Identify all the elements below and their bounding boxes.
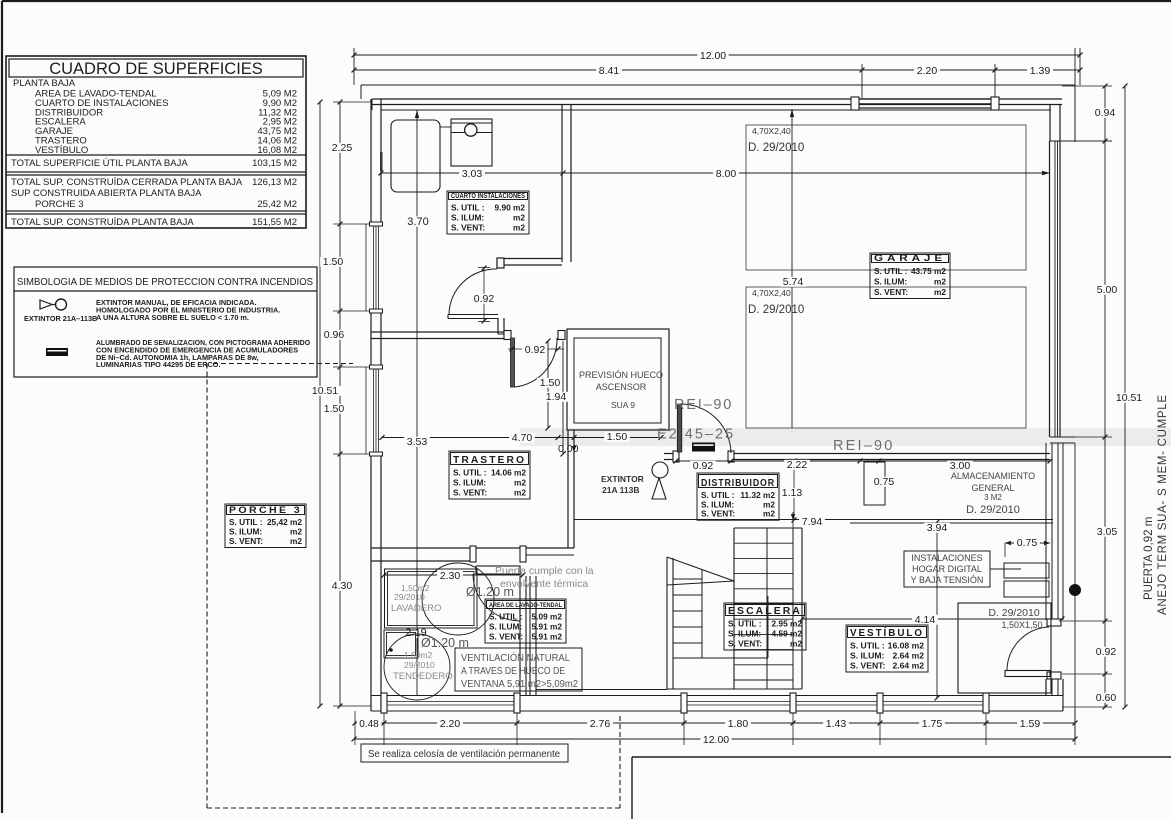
svg-text:1.13: 1.13: [782, 487, 803, 499]
svg-text:0.92: 0.92: [693, 460, 714, 472]
svg-text:S. VENT:: S. VENT:: [701, 509, 735, 519]
svg-text:TOTAL SUPERFICIE ÚTIL PLANTA B: TOTAL SUPERFICIE ÚTIL PLANTA BAJA: [11, 158, 188, 169]
svg-text:16.08 m2: 16.08 m2: [888, 641, 925, 651]
svg-text:S. VENT:: S. VENT:: [229, 536, 263, 546]
svg-text:25,42 m2: 25,42 m2: [267, 517, 302, 527]
svg-text:Se realiza celosía de ventilac: Se realiza celosía de ventilación perman…: [368, 749, 560, 760]
svg-text:14.06 m2: 14.06 m2: [491, 468, 526, 478]
svg-text:16,08 M2: 16,08 M2: [257, 145, 297, 156]
svg-text:D. 29/2010: D. 29/2010: [966, 504, 1020, 516]
svg-text:1.50: 1.50: [324, 403, 345, 415]
svg-text:2.20: 2.20: [440, 718, 461, 730]
svg-text:TOTAL SUP. CONSTRUÍDA CERRADA: TOTAL SUP. CONSTRUÍDA CERRADA PLANTA BAJ…: [11, 177, 243, 188]
svg-text:S. UTIL :: S. UTIL :: [451, 203, 485, 213]
svg-text:PORCHE 3: PORCHE 3: [229, 505, 302, 515]
svg-text:S. VENT:: S. VENT:: [728, 639, 762, 649]
svg-text:PUERTA 0,92 m: PUERTA 0,92 m: [1143, 517, 1155, 600]
svg-text:1.94: 1.94: [546, 391, 567, 403]
svg-text:2.22: 2.22: [787, 459, 808, 471]
svg-text:m2: m2: [763, 509, 775, 519]
svg-text:2.30: 2.30: [440, 570, 461, 582]
svg-text:43.75 m2: 43.75 m2: [911, 266, 946, 276]
svg-text:TRASTERO: TRASTERO: [453, 455, 526, 466]
svg-text:0.96: 0.96: [324, 329, 345, 341]
svg-text:ALMACENAMIENTO: ALMACENAMIENTO: [951, 471, 1035, 481]
svg-text:4.59 m2: 4.59 m2: [772, 629, 803, 639]
svg-text:4.14: 4.14: [915, 614, 936, 626]
svg-text:A UNA ALTURA SOBRE EL SUE: A UNA ALTURA SOBRE EL SUELO < 1.70 m.: [96, 313, 249, 322]
svg-text:VENTILACIÓN NATURAL: VENTILACIÓN NATURAL: [461, 651, 570, 664]
svg-text:10.51: 10.51: [1116, 392, 1142, 404]
svg-text:Puerta cumple con la: Puerta cumple con la: [495, 565, 594, 577]
svg-text:21A 113B: 21A 113B: [602, 485, 640, 495]
svg-text:4.30: 4.30: [332, 580, 353, 592]
svg-text:EXTINTOR 21A–113B: EXTINTOR 21A–113B: [24, 314, 97, 323]
svg-text:151,55 M2: 151,55 M2: [252, 217, 297, 228]
svg-text:8.41: 8.41: [599, 65, 620, 77]
svg-text:D. 29/2010: D. 29/2010: [748, 142, 804, 154]
svg-text:3.94: 3.94: [927, 522, 948, 534]
svg-text:S. UTIL :: S. UTIL :: [728, 619, 762, 629]
svg-text:S. ILUM:: S. ILUM:: [728, 629, 761, 639]
svg-text:2.64 m2: 2.64 m2: [892, 661, 924, 671]
svg-text:m2: m2: [290, 536, 302, 546]
svg-text:SUA 9: SUA 9: [611, 400, 635, 410]
svg-text:S. ILUM:: S. ILUM:: [453, 478, 486, 488]
svg-text:PORCHE 3: PORCHE 3: [35, 199, 84, 210]
svg-text:5.91 m2: 5.91 m2: [532, 622, 563, 632]
svg-text:1.43: 1.43: [826, 718, 847, 730]
svg-text:REI–90: REI–90: [674, 397, 733, 413]
svg-text:5.74: 5.74: [783, 276, 804, 288]
svg-text:ESCALERA: ESCALERA: [728, 606, 802, 617]
svg-text:0.92: 0.92: [525, 344, 546, 356]
svg-text:1.50: 1.50: [540, 377, 561, 389]
svg-text:S. ILUM:: S. ILUM:: [229, 527, 262, 537]
svg-text:0.75: 0.75: [1017, 537, 1038, 549]
svg-text:S. ILUM:: S. ILUM:: [489, 622, 522, 632]
svg-text:TOTAL SUP. CONSTRUÍDA PLANTA B: TOTAL SUP. CONSTRUÍDA PLANTA BAJA: [11, 217, 194, 228]
svg-text:CUADRO DE SUPERFICIES: CUADRO DE SUPERFICIES: [49, 60, 263, 78]
svg-text:GARAJE: GARAJE: [874, 253, 946, 263]
svg-text:1.50: 1.50: [323, 256, 344, 268]
svg-text:3.05: 3.05: [1097, 526, 1118, 538]
svg-text:1,50m2: 1,50m2: [404, 650, 433, 660]
svg-text:4,70X2,40: 4,70X2,40: [752, 126, 791, 136]
svg-text:S. VENT:: S. VENT:: [850, 661, 885, 671]
svg-text:envolvente térmica: envolvente térmica: [500, 578, 588, 590]
svg-text:10.51: 10.51: [312, 385, 338, 397]
svg-text:AREA DE LAVADO-TENDAL: AREA DE LAVADO-TENDAL: [489, 602, 562, 609]
svg-text:25,42 M2: 25,42 M2: [257, 199, 297, 210]
svg-text:3.70: 3.70: [407, 216, 428, 228]
svg-text:0.75: 0.75: [874, 476, 895, 488]
svg-text:E2 45–25: E2 45–25: [657, 427, 735, 443]
svg-text:m2: m2: [934, 277, 946, 287]
svg-text:126,13 M2: 126,13 M2: [252, 177, 297, 188]
svg-text:1,50X1,50: 1,50X1,50: [1001, 620, 1042, 630]
svg-text:4,70X2,40: 4,70X2,40: [752, 288, 791, 298]
svg-text:S. UTIL :: S. UTIL :: [489, 612, 523, 622]
svg-text:LUMINARIAS TIPO 44295 DE E: LUMINARIAS TIPO 44295 DE ERCO.: [96, 360, 220, 369]
svg-text:INSTALACIONES: INSTALACIONES: [911, 553, 982, 563]
svg-text:PREVISIÓN HUECO: PREVISIÓN HUECO: [579, 370, 663, 380]
svg-text:1.59: 1.59: [1020, 718, 1041, 730]
svg-text:3 M2: 3 M2: [984, 493, 1002, 502]
svg-text:5.09 m2: 5.09 m2: [532, 612, 563, 622]
svg-text:0.92: 0.92: [474, 293, 495, 305]
svg-text:REI–90: REI–90: [833, 438, 895, 454]
svg-text:m2: m2: [790, 639, 802, 649]
svg-text:29/2010: 29/2010: [394, 592, 425, 602]
svg-text:S. UTIL :: S. UTIL :: [453, 468, 487, 478]
svg-text:S. UTIL :: S. UTIL :: [229, 517, 263, 527]
svg-text:3.53: 3.53: [407, 436, 428, 448]
svg-text:29/2010: 29/2010: [404, 660, 435, 670]
svg-text:Y BAJA TENSIÓN: Y BAJA TENSIÓN: [911, 575, 984, 585]
svg-text:DISTRIBUIDOR: DISTRIBUIDOR: [701, 478, 775, 489]
svg-text:m2: m2: [513, 213, 525, 223]
svg-text:1.50: 1.50: [607, 431, 628, 443]
svg-text:D. 29/2010: D. 29/2010: [988, 607, 1040, 619]
svg-text:ANEJO TERM SUA- S MEM- CUMPLE: ANEJO TERM SUA- S MEM- CUMPLE: [1157, 394, 1169, 615]
svg-text:S. VENT:: S. VENT:: [489, 632, 523, 642]
svg-text:VESTÍBULO: VESTÍBULO: [35, 145, 88, 156]
svg-text:7.94: 7.94: [802, 516, 823, 528]
svg-text:S. VENT:: S. VENT:: [874, 287, 908, 297]
svg-text:LAVADERO: LAVADERO: [391, 603, 441, 614]
svg-text:5.91 m2: 5.91 m2: [532, 632, 563, 642]
svg-text:4.70: 4.70: [512, 432, 533, 444]
svg-text:ASCENSOR: ASCENSOR: [596, 382, 647, 392]
svg-text:HOGAR DIGITAL: HOGAR DIGITAL: [912, 564, 982, 574]
svg-text:0.60: 0.60: [1096, 692, 1117, 704]
svg-text:1.80: 1.80: [728, 718, 749, 730]
svg-text:VESTÍBULO: VESTÍBULO: [850, 626, 924, 639]
svg-text:m2: m2: [513, 223, 525, 233]
svg-text:12.00: 12.00: [703, 734, 729, 746]
svg-text:TENDEDERO: TENDEDERO: [393, 671, 453, 682]
svg-text:D. 29/2010: D. 29/2010: [748, 304, 804, 316]
svg-text:S. ILUM:: S. ILUM:: [850, 651, 885, 661]
svg-text:SIMBOLOGIA DE MEDIOS DE PROTEC: SIMBOLOGIA DE MEDIOS DE PROTECCION CONTR…: [17, 277, 313, 288]
svg-text:S. UTIL :: S. UTIL :: [874, 266, 908, 276]
svg-text:2.20: 2.20: [917, 65, 938, 77]
svg-text:0.94: 0.94: [1095, 107, 1116, 119]
svg-text:2.76: 2.76: [590, 718, 611, 730]
svg-text:S. VENT:: S. VENT:: [453, 488, 487, 498]
svg-text:3.03: 3.03: [462, 168, 483, 180]
svg-text:EXTINTOR: EXTINTOR: [601, 474, 644, 484]
svg-text:S. UTIL :: S. UTIL :: [850, 641, 885, 651]
svg-text:5.00: 5.00: [1097, 284, 1118, 296]
svg-text:2.25: 2.25: [332, 142, 353, 154]
svg-text:1.75: 1.75: [922, 718, 943, 730]
svg-text:2.64 m2: 2.64 m2: [892, 651, 924, 661]
svg-text:m2: m2: [934, 287, 946, 297]
svg-text:m2: m2: [290, 527, 302, 537]
svg-text:SUP CONSTRUIDA ABIERTA PLANTA: SUP CONSTRUIDA ABIERTA PLANTA BAJA: [11, 188, 202, 199]
svg-text:m2: m2: [514, 488, 526, 498]
svg-text:0.92: 0.92: [1096, 646, 1117, 658]
svg-text:9.90 m2: 9.90 m2: [495, 203, 526, 213]
svg-text:1.39: 1.39: [1030, 65, 1051, 77]
svg-text:103,15 M2: 103,15 M2: [252, 158, 297, 169]
svg-text:A TRAVES DE HUECO DE: A TRAVES DE HUECO DE: [461, 665, 565, 677]
svg-text:CUARTO INSTALACIONES: CUARTO INSTALACIONES: [451, 193, 525, 200]
svg-text:S. VENT:: S. VENT:: [451, 223, 485, 233]
svg-text:2.95 m2: 2.95 m2: [772, 619, 803, 629]
svg-text:PLANTA BAJA: PLANTA BAJA: [13, 78, 76, 89]
svg-text:S. ILUM:: S. ILUM:: [874, 277, 907, 287]
svg-text:8.00: 8.00: [716, 168, 737, 180]
svg-text:S. ILUM:: S. ILUM:: [451, 213, 484, 223]
svg-text:VENTANA 5,91 m2>5,09m2: VENTANA 5,91 m2>5,09m2: [461, 678, 578, 690]
svg-text:GENERAL: GENERAL: [971, 483, 1014, 493]
svg-text:12.00: 12.00: [700, 50, 726, 62]
svg-text:0.48: 0.48: [359, 719, 379, 730]
svg-text:m2: m2: [514, 478, 526, 488]
